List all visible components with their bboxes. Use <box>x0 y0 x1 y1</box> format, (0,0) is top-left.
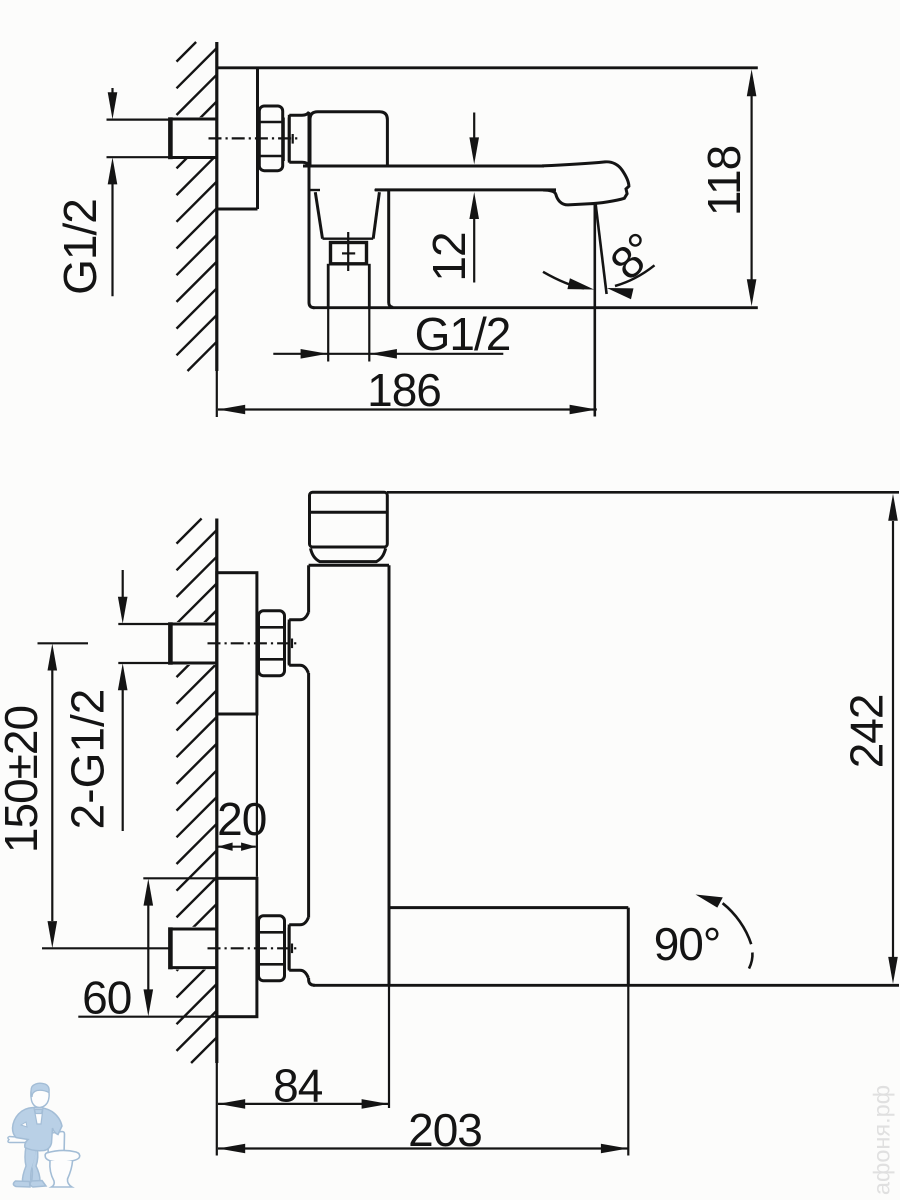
svg-text:G1/2: G1/2 <box>54 199 106 295</box>
svg-text:242: 242 <box>840 695 892 769</box>
svg-text:афоня.рф: афоня.рф <box>869 1085 895 1195</box>
svg-text:90°: 90° <box>654 918 721 970</box>
svg-text:203: 203 <box>408 1104 482 1156</box>
svg-text:118: 118 <box>698 146 750 216</box>
svg-text:12: 12 <box>423 232 475 281</box>
svg-text:84: 84 <box>273 1060 323 1112</box>
svg-text:2-G1/2: 2-G1/2 <box>62 689 114 830</box>
svg-text:150±20: 150±20 <box>0 706 47 853</box>
svg-text:G1/2: G1/2 <box>415 308 511 360</box>
svg-text:186: 186 <box>367 364 441 416</box>
svg-text:60: 60 <box>82 971 131 1023</box>
svg-text:20: 20 <box>217 793 266 845</box>
